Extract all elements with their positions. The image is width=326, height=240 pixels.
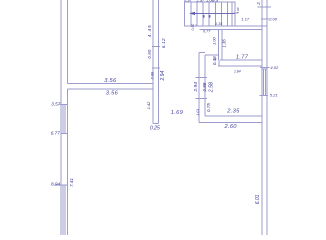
svg-text:3.56: 3.56	[106, 91, 119, 97]
connector line y55	[205, 54, 219, 56]
svg-text:0.77: 0.77	[203, 29, 211, 33]
svg-text:1.36: 1.36	[222, 39, 227, 48]
svg-text:6.01: 6.01	[255, 194, 261, 204]
tick near 0.48	[214, 58, 216, 60]
svg-text:8.94: 8.94	[51, 182, 61, 187]
svg-text:2.94: 2.94	[193, 82, 199, 93]
svg-text:1.00: 1.00	[211, 36, 216, 45]
center wall tick 2	[152, 67, 160, 69]
svg-text:1.84: 1.84	[234, 70, 241, 74]
svg-text:2.58: 2.58	[208, 82, 214, 93]
svg-text:2.94: 2.94	[160, 71, 166, 82]
wire left wall inner line upper	[66, 0, 68, 84]
window W1 left wall caps	[60, 104, 68, 106]
staircase arrow	[189, 12, 235, 15]
svg-text:5.21: 5.21	[270, 93, 278, 98]
svg-text:0.88: 0.88	[202, 82, 207, 91]
wall A left face	[218, 30, 220, 60]
wall B tick y77.6	[195, 77, 207, 79]
window W3 right wall caps	[262, 68, 267, 70]
svg-text:2.60: 2.60	[224, 124, 238, 130]
svg-text:1.17: 1.17	[241, 16, 250, 21]
clipped text fragments above staircase	[184, 0, 219, 2]
line below stairs upper	[235, 25, 267, 27]
right wall tick y7	[258, 6, 272, 8]
lower-center wall lower line	[199, 122, 262, 124]
staircase box	[185, 2, 235, 26]
wall horizontal upper line	[67, 83, 153, 85]
center wall tick 1	[152, 45, 160, 47]
staircase treads	[190, 2, 192, 26]
svg-text:0.97: 0.97	[184, 0, 193, 2]
window W1 hatch	[62, 105, 64, 134]
rotated dimension labels	[69, 1, 261, 204]
center wall right face	[157, 0, 159, 123]
svg-text:0.80: 0.80	[147, 49, 152, 59]
svg-text:6.12: 6.12	[161, 38, 166, 48]
wall A right face	[221, 30, 223, 60]
center wall left face	[152, 0, 154, 123]
svg-text:1.77: 1.77	[236, 54, 249, 60]
wire left wall inner line lower	[66, 89, 68, 235]
wall B top cap	[199, 52, 205, 54]
svg-text:1.00: 1.00	[236, 7, 240, 13]
right wall tick y95.8	[259, 95, 268, 97]
svg-text:3.56: 3.56	[104, 78, 117, 84]
corridor upper line	[220, 59, 262, 61]
svg-text:0.88: 0.88	[149, 71, 154, 79]
svg-text:0.48: 0.48	[212, 56, 217, 65]
svg-text:1.34: 1.34	[215, 22, 222, 26]
window W2 tick	[54, 184, 68, 186]
svg-text:1.01: 1.01	[196, 109, 200, 116]
wall B tick y98.6	[195, 98, 207, 100]
svg-text:0.50: 0.50	[191, 24, 195, 31]
corridor lower line	[218, 65, 262, 67]
svg-text:4.02: 4.02	[270, 65, 279, 70]
stair bottom vertical tick	[195, 24, 197, 26]
svg-text:1.69: 1.69	[171, 110, 184, 116]
window W2 hatch	[62, 185, 64, 235]
right wall outer line	[266, 0, 268, 235]
right wall inner line	[261, 0, 263, 235]
window W3 hatch	[263, 69, 265, 96]
line below stairs lower	[199, 29, 261, 31]
svg-text:6.77: 6.77	[51, 130, 61, 135]
lower-center wall upper line	[205, 115, 262, 117]
center wall end cap	[153, 122, 158, 124]
svg-text:0.75: 0.75	[206, 103, 211, 112]
svg-text:0.9: 0.9	[213, 0, 219, 2]
svg-text:7.41: 7.41	[69, 178, 74, 187]
svg-text:1.42: 1.42	[146, 101, 151, 110]
corridor left cap	[218, 60, 220, 66]
svg-text:0.25: 0.25	[150, 125, 160, 131]
staircase	[185, 2, 235, 26]
svg-text:2.00: 2.00	[268, 17, 278, 22]
right wall tick y19	[261, 18, 270, 20]
right wall tick y67.4	[260, 66, 270, 68]
text labels horizontal	[104, 54, 249, 130]
svg-text:3.57: 3.57	[51, 102, 61, 107]
blobs on arrow (tread crossings)	[203, 15, 211, 18]
svg-text:2.97: 2.97	[196, 0, 206, 2]
wall B left face	[198, 53, 200, 123]
tick under 1.00 stair	[234, 12, 239, 14]
svg-text:2.35: 2.35	[226, 109, 240, 115]
wire left wall outer line	[60, 0, 62, 235]
svg-text:2.: 2.	[256, 1, 261, 6]
wall B right face	[204, 55, 206, 116]
wall horizontal lower line	[67, 88, 153, 90]
svg-text:4.45: 4.45	[147, 24, 152, 37]
